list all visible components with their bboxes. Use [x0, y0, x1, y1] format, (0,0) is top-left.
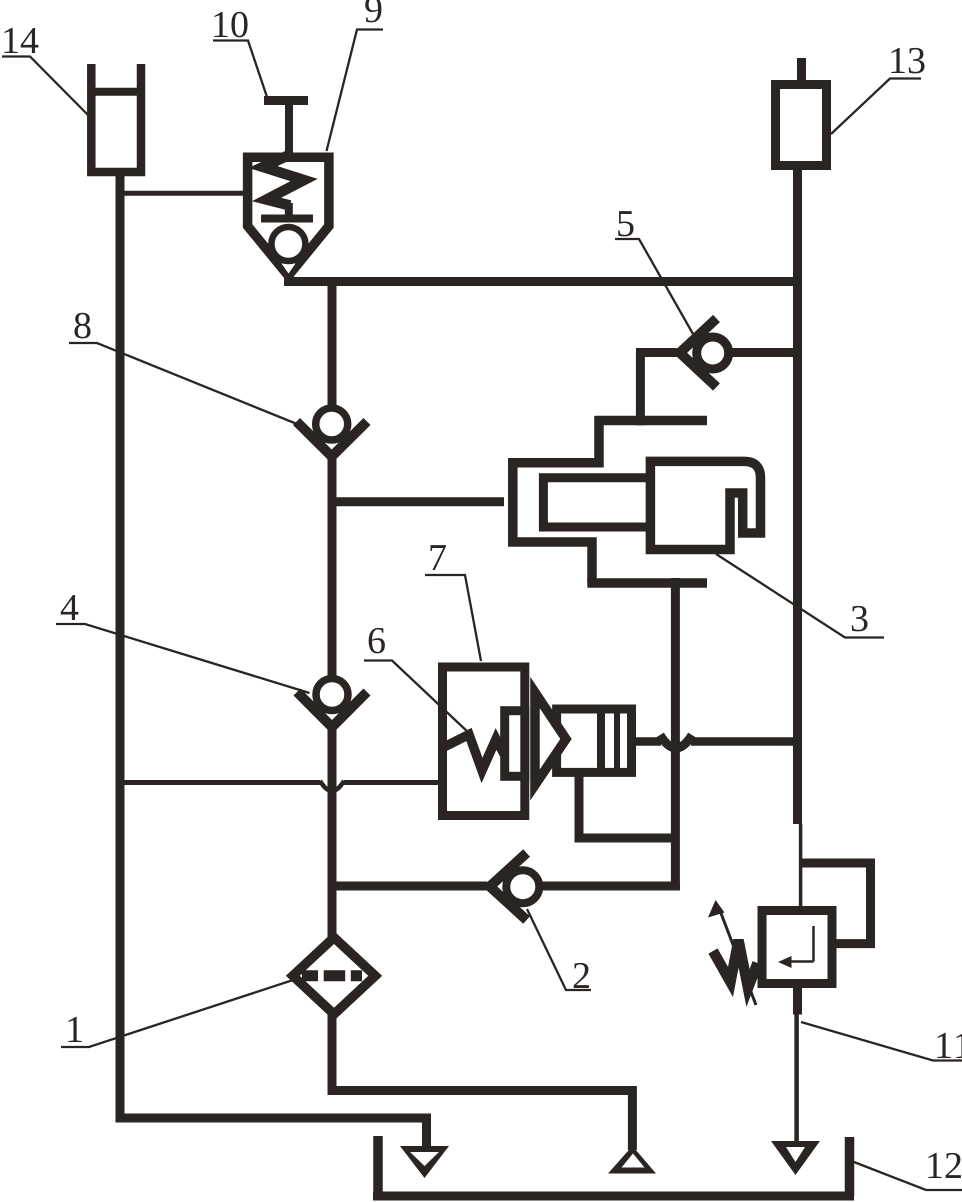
valve body 7 [443, 667, 525, 816]
leader 12 [854, 1162, 962, 1190]
relief valve 11 spring [713, 940, 758, 988]
label 13 [891, 48, 904, 73]
check valve 4 [316, 679, 348, 711]
wire thin pilot line y783 with hop [117, 780, 320, 785]
check valve 5 [697, 337, 729, 369]
pump 3 body with J hook [650, 461, 760, 549]
wire vertical from pump 3 down to valve2 line [671, 578, 680, 886]
leader 5 [615, 239, 697, 341]
pump 3 bottom port line [587, 578, 707, 588]
leader 2 [527, 909, 591, 990]
filter 1 diamond [293, 938, 375, 1015]
accumulator 13 top right [797, 58, 806, 84]
label 7 [431, 545, 446, 570]
wire valve2 horizontal [332, 882, 488, 891]
relief valve 11 internal arrow [812, 926, 815, 962]
wire piston exit line to right main (with crossing notch) [631, 737, 661, 746]
label 11 [937, 1033, 950, 1058]
wire pilot loop under piston 6 [579, 772, 675, 838]
seat bar in valve 9 [261, 215, 313, 223]
label 6 [369, 628, 385, 654]
leader 6 [364, 661, 470, 734]
wire below relief valve 11 [793, 986, 802, 1015]
wire left main vertical + bottom-left run to drain arrow [120, 170, 427, 1150]
relief valve 11 adjust arrow [719, 908, 756, 1005]
wire vertical from valve 9 through valves 8,4 to filter 1 [328, 277, 337, 431]
label 8 [74, 313, 90, 339]
poppet triangle of valve 6 [535, 693, 566, 786]
wire top main horizontal [284, 277, 802, 286]
leader 13 [831, 79, 921, 135]
pump 3 top port staircase [636, 353, 645, 426]
check valve 2 [506, 870, 539, 903]
wire thin line tank14 to valve 9 [117, 191, 246, 196]
drain arrow right [771, 1141, 820, 1175]
leader 7 [425, 575, 481, 661]
tank 12 [373, 1136, 383, 1196]
spring plate 6 [505, 711, 525, 777]
crossing hop notch [660, 735, 692, 748]
leader 1 [61, 980, 293, 1047]
label 5 [618, 211, 633, 236]
check valve 8 [316, 408, 348, 440]
valve 9 seat notch [282, 264, 296, 274]
leader 8 [69, 343, 297, 424]
label 2 [574, 963, 589, 988]
handle 10 T-bar [264, 96, 308, 105]
label 10 [214, 12, 227, 37]
label 12 [928, 1153, 941, 1178]
cylinder 14 (tank symbol top-left) [91, 64, 141, 172]
ball in valve 9 [271, 227, 305, 261]
spring 6 [444, 735, 504, 771]
drain arrow left [400, 1146, 449, 1178]
piston cylinder of valve 6 [557, 709, 632, 772]
leader 14 [2, 57, 88, 116]
label 4 [61, 595, 79, 620]
wire valve5 horizontal [636, 348, 677, 357]
wire right main vertical [793, 165, 802, 824]
wire port line to pump 3 [328, 497, 505, 506]
relief valve 11 thin inlet [799, 824, 803, 908]
leader 4 [56, 624, 310, 693]
relief valve 11 body [762, 911, 832, 984]
wire from filter 1 to drain triangle [332, 1011, 632, 1150]
leader 9 [327, 30, 384, 152]
leader 3 [716, 554, 884, 638]
relief valve 11 pilot loop [801, 863, 871, 944]
spring in valve 9 [263, 155, 304, 206]
leader 10 [213, 41, 267, 98]
vent triangle [608, 1146, 656, 1174]
valve 9 body (pilot-operated valve with spring and ball) [248, 157, 329, 275]
label 3 [852, 606, 868, 632]
label 1 [68, 1017, 81, 1042]
pump 3 piston [543, 478, 650, 527]
label 9 [365, 0, 381, 22]
leader 11 [801, 1022, 962, 1061]
label 14 [4, 28, 17, 53]
